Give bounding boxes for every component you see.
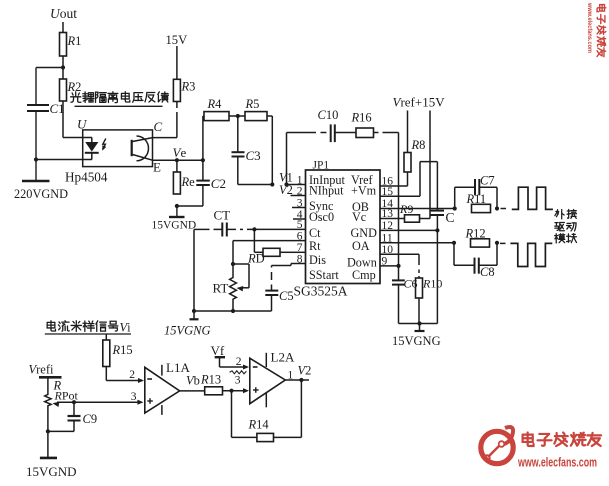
svg-text:U: U (77, 117, 88, 132)
IC right pin names (347, 173, 377, 282)
wire R2 to optocoupler LED (63, 101, 92, 138)
resistor R15 (103, 334, 133, 367)
potentiometer RPot (45, 377, 79, 457)
svg-text:15VGND: 15VGND (26, 464, 77, 479)
wire 15VGNG left rail (193, 229, 195, 311)
capacitor C5 (265, 266, 293, 312)
resistor RD (247, 248, 292, 265)
op-amp L1A (145, 360, 191, 415)
text current sampling signal Vi (45, 321, 131, 335)
svg-text:V2: V2 (279, 183, 293, 197)
op-amp L2A (250, 350, 295, 408)
node V1 label (279, 171, 306, 185)
ground 15VGND at Re (152, 206, 197, 232)
phototransistor inside optocoupler (132, 136, 153, 161)
resistor R13 (200, 373, 223, 395)
svg-text:3: 3 (235, 375, 241, 387)
node Vref +15V (393, 95, 446, 110)
resistor R2 (60, 79, 82, 101)
resistor R14 feedback (232, 380, 302, 442)
resistor R3 (173, 79, 195, 101)
svg-text:Vrefi: Vrefi (29, 363, 55, 377)
pin 8 wire to C5 (272, 264, 306, 266)
ground 220VGND (14, 160, 68, 202)
ground 15VGNG left (164, 311, 211, 338)
wire R11 output junction (495, 206, 506, 210)
svg-text:R1: R1 (67, 34, 82, 48)
svg-text:Osc0: Osc0 (309, 210, 334, 224)
wire R12 output junction (495, 241, 506, 245)
LED inside optocoupler (85, 138, 99, 160)
svg-text:Vf: Vf (211, 343, 225, 358)
svg-text:15VGND: 15VGND (152, 220, 197, 232)
svg-text:2: 2 (236, 356, 242, 368)
capacitor C6 (392, 266, 418, 324)
node V2 label (279, 183, 293, 197)
wire C3 to pin1 line (238, 184, 272, 186)
svg-text:R16: R16 (351, 111, 372, 125)
resistor R16 (351, 111, 374, 138)
IC U1 JP1 SG3525A box (306, 170, 381, 284)
wire bottom rail 15VGNG (192, 309, 272, 313)
node Ve (173, 145, 187, 160)
resistor R4 (204, 97, 229, 121)
watermark text elecfans chinese (523, 432, 601, 446)
node Vb wire to R13 (180, 374, 205, 391)
wire R5 to V1 node (267, 116, 274, 187)
capacitor C (430, 210, 454, 230)
svg-text:R3: R3 (181, 80, 196, 94)
wire R1 to R2 with junction (61, 56, 65, 79)
wire pin11 OA output line (380, 241, 456, 245)
svg-text:3: 3 (131, 391, 137, 403)
waveform output B (510, 243, 552, 266)
wire pin14 OB output line (380, 206, 457, 210)
svg-text:C9: C9 (83, 412, 98, 426)
pin 7 wire (292, 251, 306, 253)
svg-text:C3: C3 (246, 148, 261, 163)
node Uout (50, 6, 77, 21)
optocoupler pin label C (154, 119, 163, 134)
svg-text:C5: C5 (279, 289, 294, 303)
capacitor C7 (455, 174, 497, 209)
label CT (214, 208, 231, 223)
wire pin9 Cmp junction (380, 264, 401, 268)
optocoupler pin label E (153, 160, 161, 175)
waveform output A (512, 187, 553, 209)
svg-text:V2: V2 (298, 364, 312, 378)
resistor R5 (245, 97, 268, 121)
svg-text:Vref+15V: Vref+15V (393, 95, 446, 110)
svg-text:R10: R10 (422, 277, 442, 291)
svg-text:Vc: Vc (352, 210, 367, 224)
pin 2 stub (291, 195, 306, 197)
resistor R8 (404, 138, 425, 172)
label Hp4504 (65, 170, 108, 185)
text external drive module (555, 209, 577, 243)
svg-text:C7: C7 (480, 174, 495, 188)
optocoupler pin label U (77, 117, 88, 132)
svg-text:CT: CT (214, 208, 231, 223)
svg-text:Vi: Vi (120, 321, 132, 335)
svg-text:RT: RT (213, 281, 229, 296)
pin 3 stub (292, 207, 306, 209)
svg-text:15V: 15V (166, 33, 188, 47)
wire emitter Ve line (153, 158, 205, 162)
wire Vf to op-amp pin2 (220, 356, 250, 374)
wire pin1 node up to C10 (284, 133, 326, 187)
wire pin3 from RPot wiper (52, 391, 143, 407)
wire Uout to R1 (62, 22, 64, 33)
svg-text:R4: R4 (207, 97, 223, 111)
wire Ve up to R4 (203, 116, 204, 160)
wire collector to R3 (153, 102, 177, 138)
wire bottom rail to GND line (399, 298, 438, 326)
svg-text:Cmp: Cmp (352, 268, 376, 282)
svg-text:Hp4504: Hp4504 (65, 170, 108, 185)
svg-text:R15: R15 (112, 343, 133, 357)
svg-text:C: C (154, 119, 163, 134)
svg-text:Rt: Rt (309, 239, 321, 253)
svg-text:R5: R5 (245, 97, 260, 111)
node Vf (211, 343, 226, 367)
potentiometer RT (213, 264, 237, 311)
watermark top right vertical (586, 2, 606, 57)
wire CT junction down to RD (253, 229, 255, 252)
svg-text:Dis: Dis (309, 253, 326, 267)
svg-text:Uout: Uout (50, 6, 77, 21)
wire 15V to R3 (176, 46, 178, 79)
capacitor C2 (196, 160, 226, 206)
wire pin15 to cap C (380, 162, 437, 211)
resistor Re (173, 160, 195, 194)
IC part number SG3525A (294, 284, 348, 299)
resistor R10 (416, 277, 443, 299)
svg-text:C1: C1 (50, 101, 65, 116)
capacitor C1 (27, 101, 65, 160)
pin numbers 16-9 (382, 176, 394, 268)
wire pin6 line (231, 241, 306, 267)
capacitor C8 (454, 243, 497, 279)
svg-text:GND: GND (351, 226, 378, 240)
text optocoupler isolation voltage feedback (71, 92, 169, 107)
svg-text:R8: R8 (411, 138, 426, 152)
svg-text:2: 2 (129, 369, 135, 381)
svg-text:C8: C8 (480, 265, 495, 279)
svg-text:Re: Re (181, 175, 196, 189)
wire L2A output V2 (285, 364, 311, 383)
wire R16 to Cmp feedback line (374, 133, 399, 266)
svg-text:SStart: SStart (309, 268, 339, 282)
svg-text:E: E (153, 160, 161, 175)
resistor R9 (380, 202, 430, 222)
resistor R11 (466, 192, 491, 213)
capacitor C3 (232, 116, 261, 185)
ground 15VGNG right (392, 324, 441, 349)
wire R8 to pin16 (380, 172, 408, 186)
svg-text:www.elecfans.com: www.elecfans.com (517, 456, 597, 470)
wire Vref to R8 (407, 111, 409, 153)
wire R13 to op-amp pin3 (223, 375, 250, 394)
svg-text:R13: R13 (200, 373, 221, 387)
svg-text:C2: C2 (211, 176, 226, 191)
capacitor CT with dashed wire to pin5 (194, 223, 306, 237)
pin 4 stub (293, 218, 306, 220)
svg-text:R12: R12 (465, 227, 486, 241)
RT wiper arrow (233, 264, 249, 291)
watermark logo elecfans (481, 427, 513, 464)
svg-text:C: C (446, 210, 455, 225)
svg-text:OA: OA (352, 239, 370, 253)
svg-text:R2: R2 (67, 80, 82, 94)
IC designator JP1 (313, 160, 330, 172)
svg-text:SG3525A: SG3525A (294, 284, 348, 299)
svg-text:JP1: JP1 (313, 160, 330, 172)
wire Re C2 common (175, 204, 203, 208)
resistor R1 (60, 33, 82, 57)
svg-text:R9: R9 (399, 202, 413, 216)
svg-text:220VGND: 220VGND (14, 187, 68, 201)
wire R4 R5 junction (229, 114, 245, 118)
IC left pin names (309, 173, 345, 282)
svg-text:R14: R14 (248, 418, 270, 432)
svg-text:C6: C6 (404, 277, 418, 291)
svg-text:+Vm: +Vm (351, 184, 377, 198)
svg-text:Ve: Ve (173, 145, 187, 160)
wire R15 to op-amp pin2 (106, 367, 144, 384)
svg-text:Ct: Ct (309, 226, 321, 240)
wire junction to C1 branch (36, 68, 64, 105)
svg-text:www.elecfans.com: www.elecfans.com (586, 2, 593, 53)
optocoupler Hp4504 box (83, 130, 153, 167)
wire pin10 to R10 (380, 254, 419, 278)
svg-text:1: 1 (288, 370, 294, 382)
wire LED cathode to C1 node (34, 157, 92, 161)
svg-text:RD: RD (247, 252, 265, 266)
pin numbers 1-8 (297, 174, 303, 265)
svg-text:15VGNG: 15VGNG (392, 334, 441, 348)
svg-text:Vb: Vb (186, 374, 200, 388)
capacitor C10 (318, 108, 357, 142)
ground 15VGND bottom (26, 458, 77, 479)
node Vrefi (29, 363, 62, 378)
capacitor C9 (46, 400, 97, 433)
svg-text:NIhput: NIhput (309, 184, 344, 198)
watermark text elecfans url (517, 456, 597, 470)
node 15V (166, 33, 188, 47)
resistor R12 (465, 227, 490, 248)
wire pin12 GND line (380, 228, 440, 323)
svg-text:L2A: L2A (271, 350, 295, 365)
wire +15V rail down (429, 111, 431, 219)
svg-text:15VGNG: 15VGNG (164, 324, 211, 338)
svg-text:C10: C10 (318, 108, 339, 122)
light arrow symbol (100, 139, 106, 152)
